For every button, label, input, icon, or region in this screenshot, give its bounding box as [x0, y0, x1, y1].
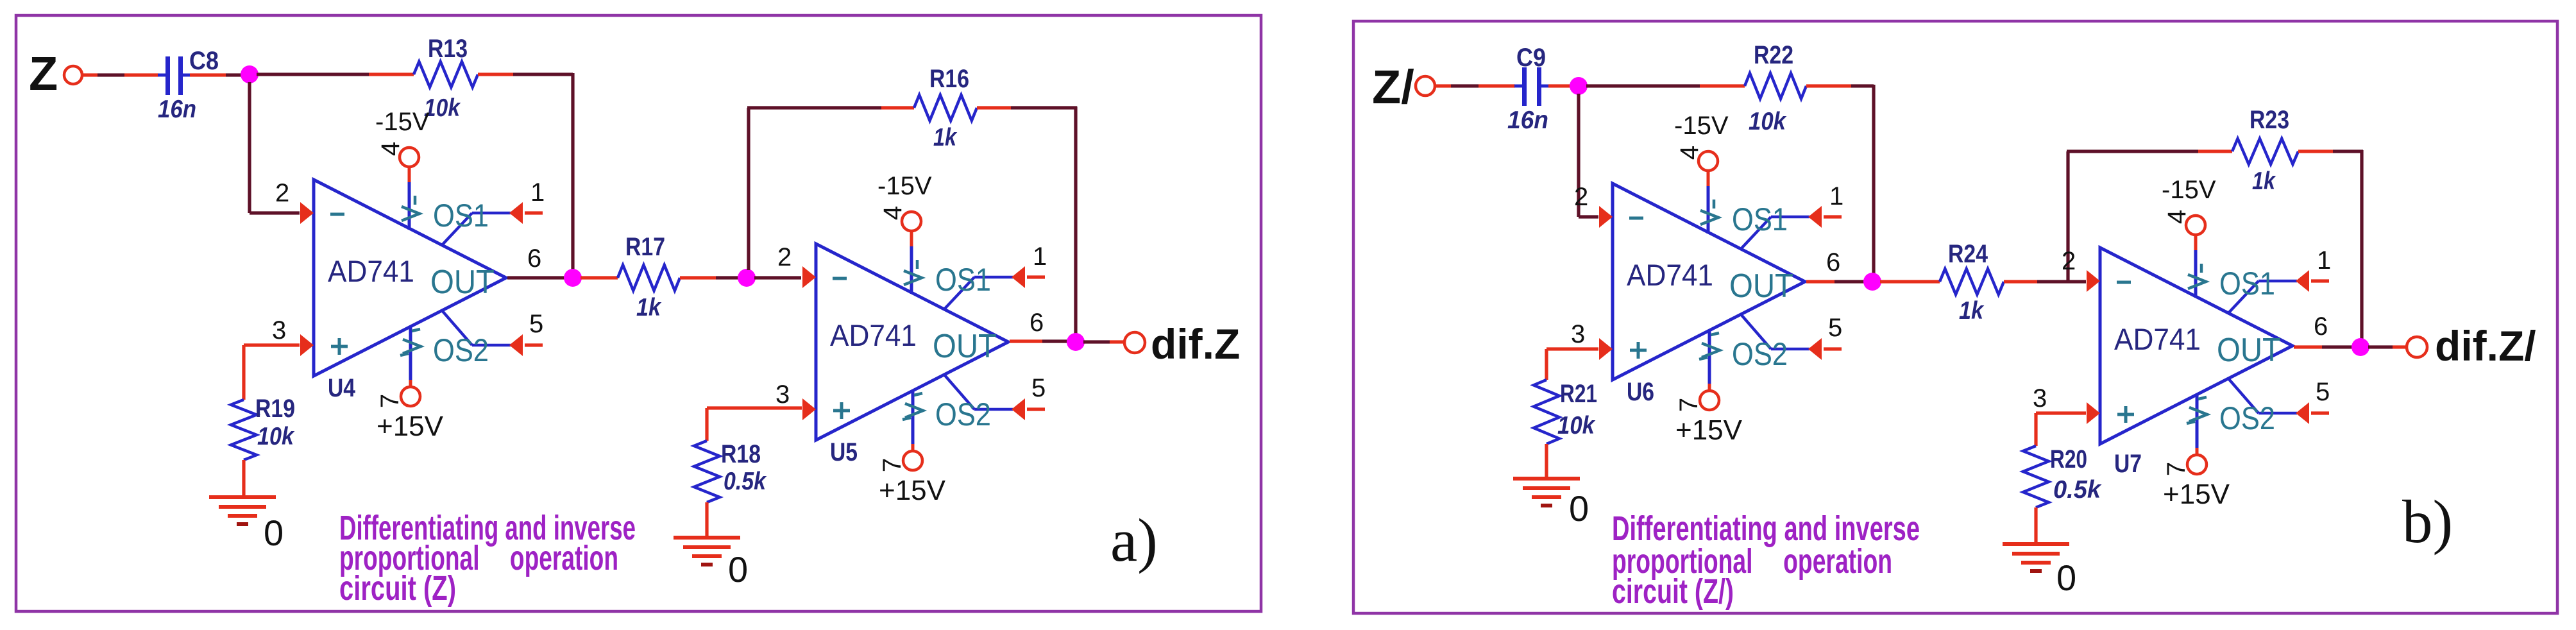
svg-text:OUT: OUT: [933, 328, 997, 365]
svg-text:R16: R16: [929, 65, 969, 93]
resistor R16: [914, 95, 977, 121]
svg-text:16n: 16n: [158, 96, 196, 123]
ground: [674, 538, 740, 565]
svg-text:10k: 10k: [1557, 412, 1596, 439]
caption text panel a: [339, 509, 636, 608]
svg-text:OUT: OUT: [430, 264, 495, 301]
wire U6 output to junction: [1806, 280, 1835, 283]
svg-text:2: 2: [2062, 247, 2076, 275]
svg-text:OUT: OUT: [1729, 268, 1793, 305]
svg-text:AD741: AD741: [830, 318, 917, 352]
svg-text:dif.Z: dif.Z: [1151, 320, 1240, 368]
svg-text:7: 7: [376, 394, 404, 408]
wire U4 pin 3 to R19: [244, 343, 300, 346]
wire R16 to output junction: [977, 106, 1011, 109]
wire U7 output to junction: [2294, 345, 2322, 348]
wire junction to U5 pin 2: [754, 276, 801, 279]
svg-text:a): a): [1110, 506, 1158, 574]
wire R13 to output node (feedback right leg): [478, 72, 513, 76]
junction U4 output node: [564, 269, 582, 287]
wire R20 to ground: [2034, 507, 2037, 544]
resistor R19: [231, 400, 257, 460]
svg-text:2: 2: [1574, 183, 1588, 211]
pin 2 input arrow: [802, 266, 816, 288]
svg-text:R18: R18: [721, 440, 761, 468]
junction dif.Z/ node: [2351, 338, 2369, 356]
pin 3 input arrow: [2087, 402, 2100, 424]
wire U5 output to junction: [1010, 339, 1042, 343]
svg-text:1k: 1k: [2252, 167, 2276, 195]
svg-text:0: 0: [728, 549, 748, 590]
svg-text:R24: R24: [1948, 240, 1988, 268]
wire U7 pin 3 to R20: [2036, 411, 2086, 414]
svg-text:OUT: OUT: [2217, 332, 2281, 369]
svg-text:1: 1: [1033, 243, 1047, 271]
op-amp U6 (AD741): [1613, 151, 1842, 410]
wire R22 to output node (feedback right leg): [1806, 84, 1851, 87]
junction node B: [1570, 77, 1588, 95]
svg-text:3: 3: [1571, 320, 1585, 348]
wire node A to R13: [257, 72, 369, 76]
svg-text:OS1: OS1: [433, 198, 489, 234]
svg-text:C9: C9: [1516, 44, 1546, 72]
pin 2 input arrow: [2087, 270, 2100, 292]
svg-text:-15V: -15V: [877, 172, 932, 200]
feedback loop R23 wires: [2066, 151, 2069, 280]
wire Z terminal to C8: [82, 73, 97, 76]
svg-text:U5: U5: [830, 438, 858, 466]
capacitor C8: [158, 56, 191, 95]
svg-text:6: 6: [527, 244, 541, 273]
svg-text:4: 4: [879, 206, 907, 220]
resistor R24: [1940, 269, 2004, 294]
svg-text:1: 1: [2317, 246, 2331, 275]
svg-text:4: 4: [1675, 146, 1704, 160]
terminal dif.Z: [1124, 332, 1145, 353]
svg-text:16n: 16n: [1507, 106, 1548, 134]
ground: [209, 497, 276, 524]
svg-text:5: 5: [1828, 314, 1842, 342]
svg-text:1: 1: [1829, 182, 1843, 210]
svg-text:OS1: OS1: [2219, 266, 2275, 302]
terminal Z/: [1416, 76, 1435, 96]
svg-text:10k: 10k: [257, 423, 295, 450]
wire Z/ terminal to C9: [1435, 84, 1451, 87]
svg-text:Z: Z: [29, 47, 58, 100]
svg-text:OS2: OS2: [1732, 336, 1788, 372]
wire R17 to U5 input junction: [680, 276, 716, 279]
wire junction to R17: [580, 276, 618, 279]
wire R19 to ground: [242, 460, 245, 497]
capacitor C9: [1514, 67, 1549, 106]
svg-text:7: 7: [1675, 398, 1703, 412]
op-amp U4 (AD741): [314, 148, 543, 406]
resistor R21: [1534, 380, 1559, 444]
op-amp U7 (AD741): [2100, 216, 2329, 474]
wire U6 pin 3 to R21: [1546, 347, 1598, 350]
svg-text:7: 7: [2162, 462, 2190, 476]
svg-text:-15V: -15V: [1674, 112, 1729, 140]
pin 3 input arrow: [1599, 338, 1613, 360]
svg-text:2: 2: [777, 243, 792, 271]
junction node A: [241, 65, 258, 83]
svg-text:-15V: -15V: [375, 108, 430, 136]
wire junction to dif.Z terminal: [1083, 340, 1110, 343]
pin 2 input arrow: [300, 202, 314, 224]
svg-text:-15V: -15V: [2162, 176, 2216, 204]
svg-text:R22: R22: [1754, 41, 1793, 69]
svg-text:0: 0: [2056, 558, 2076, 598]
terminal Z: [64, 66, 82, 84]
svg-text:dif.Z/: dif.Z/: [2435, 322, 2536, 370]
svg-text:1k: 1k: [933, 124, 958, 151]
ground: [2003, 544, 2069, 571]
svg-text:3: 3: [775, 380, 790, 409]
caption text panel b: [1612, 509, 1920, 611]
wire junction to R24: [1880, 280, 1940, 283]
svg-text:U6: U6: [1627, 378, 1654, 406]
svg-text:1k: 1k: [636, 294, 662, 321]
wire node B to R22: [1586, 84, 1700, 87]
svg-text:2: 2: [275, 179, 289, 207]
feedback loop R16 wires: [747, 108, 750, 270]
terminal dif.Z/: [2407, 337, 2427, 357]
svg-text:Z/: Z/: [1372, 60, 1414, 114]
svg-text:R17: R17: [625, 233, 665, 261]
wire U4 output to junction: [507, 276, 565, 279]
svg-text:7: 7: [878, 458, 906, 472]
svg-text:1: 1: [530, 178, 545, 207]
svg-text:4: 4: [377, 142, 405, 156]
svg-text:AD741: AD741: [2114, 322, 2201, 356]
wire R24 to U7 pin 2: [2004, 280, 2037, 283]
svg-text:AD741: AD741: [1627, 258, 1713, 292]
wire node B down to U6 pin 2: [1577, 94, 1580, 217]
wire node A down to U4 pin 2: [248, 82, 251, 213]
svg-text:6: 6: [1826, 248, 1840, 277]
svg-text:OS2: OS2: [935, 396, 991, 432]
junction U6 output node: [1863, 273, 1881, 291]
wire junction to dif.Z/ terminal: [2368, 345, 2393, 348]
svg-text:U7: U7: [2114, 450, 2142, 478]
svg-text:b): b): [2402, 488, 2453, 556]
svg-text:R23: R23: [2250, 106, 2289, 134]
svg-text:5: 5: [1031, 374, 1046, 402]
svg-text:C8: C8: [189, 47, 219, 75]
svg-text:OS2: OS2: [2219, 400, 2275, 436]
ground: [1513, 479, 1580, 506]
svg-text:1k: 1k: [1959, 297, 1985, 325]
svg-text:0: 0: [1569, 488, 1589, 529]
svg-text:+15V: +15V: [2163, 479, 2230, 510]
panel b border frame: [1353, 21, 2557, 613]
svg-text:R13: R13: [428, 35, 468, 63]
resistor R23: [2232, 139, 2298, 164]
svg-text:10k: 10k: [424, 94, 461, 122]
svg-text:OS1: OS1: [935, 262, 991, 298]
svg-text:6: 6: [2314, 312, 2328, 341]
resistor R13: [414, 62, 478, 87]
wire C9 to node B junction: [1548, 84, 1571, 87]
svg-text:0.5k: 0.5k: [2053, 476, 2102, 504]
wire R18 to ground: [705, 502, 708, 538]
svg-text:+15V: +15V: [377, 411, 444, 442]
svg-text:U4: U4: [328, 374, 356, 402]
svg-text:3: 3: [272, 316, 286, 345]
pin 3 input arrow: [300, 334, 314, 356]
svg-text:4: 4: [2163, 210, 2191, 224]
wire R21 to ground: [1545, 444, 1548, 479]
resistor R22: [1745, 73, 1806, 99]
svg-text:AD741: AD741: [328, 254, 414, 288]
svg-text:6: 6: [1030, 309, 1044, 337]
svg-text:circuit (Z): circuit (Z): [339, 569, 456, 608]
junction dif.Z node: [1067, 333, 1085, 351]
svg-text:5: 5: [2316, 378, 2330, 406]
wire C8 to node A junction: [190, 73, 226, 76]
panel a border frame: [16, 15, 1261, 611]
svg-text:R20: R20: [2050, 445, 2087, 473]
junction U5 input node: [738, 269, 756, 287]
wire U5 pin 3 to R18: [707, 406, 802, 409]
resistor R20: [2023, 446, 2049, 507]
resistor R17: [618, 265, 680, 291]
svg-text:R19: R19: [255, 395, 295, 423]
wire R23 to output junction: [2298, 149, 2333, 153]
svg-text:R21: R21: [1560, 380, 1597, 408]
svg-text:+15V: +15V: [1675, 414, 1743, 446]
pin 2 input arrow: [1599, 206, 1613, 228]
svg-text:OS1: OS1: [1732, 201, 1788, 237]
svg-text:3: 3: [2033, 384, 2047, 413]
svg-text:0.5k: 0.5k: [724, 468, 767, 495]
svg-text:5: 5: [529, 310, 543, 338]
svg-text:+15V: +15V: [879, 475, 946, 506]
svg-text:0: 0: [264, 513, 284, 553]
resistor R18: [694, 441, 720, 502]
svg-text:OS2: OS2: [433, 332, 489, 368]
svg-text:circuit (Z/): circuit (Z/): [1612, 572, 1734, 611]
op-amp U5 (AD741): [816, 212, 1045, 470]
svg-text:10k: 10k: [1749, 108, 1787, 135]
pin 3 input arrow: [802, 398, 816, 420]
